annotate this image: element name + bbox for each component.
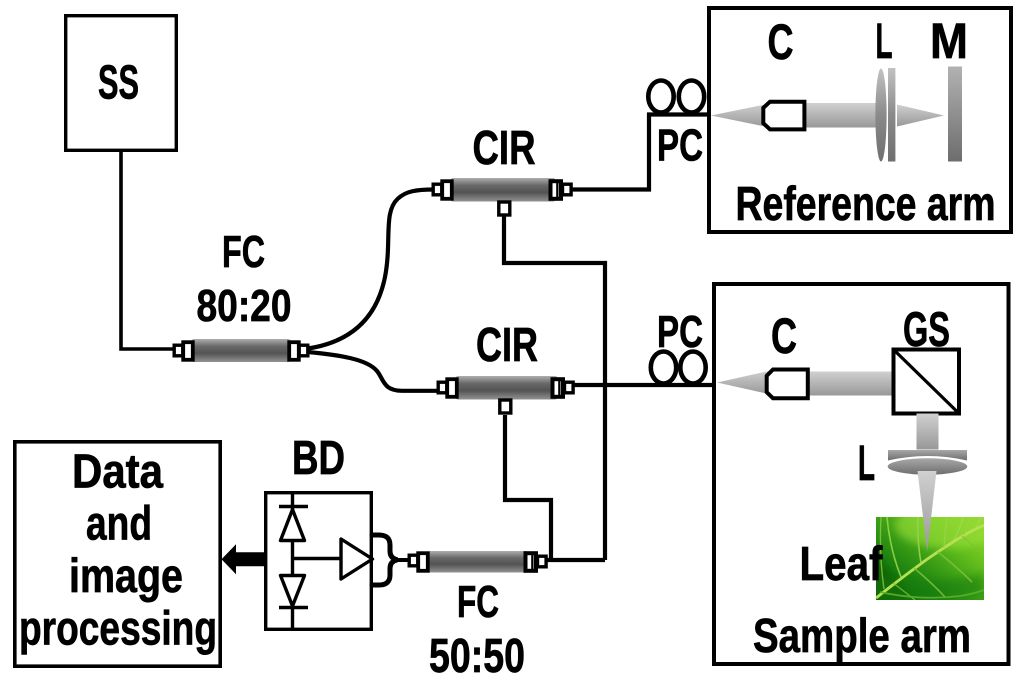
- FC 50:50 right connector stripe: [531, 555, 533, 570]
- svg-text:C: C: [771, 308, 797, 364]
- svg-text:50:50: 50:50: [429, 630, 525, 682]
- svg-text:FC: FC: [457, 576, 499, 627]
- CIR2 bottom port: [500, 400, 511, 413]
- photodiode D2 cathode bar: [279, 606, 308, 609]
- FC 80:20 right connector square: [289, 342, 299, 360]
- sample arm beam: diverging triangle from fiber tip: [717, 371, 771, 395]
- reference arm collimator C: [763, 102, 804, 130]
- FC 50:50 left connector nub: [409, 555, 418, 566]
- svg-text:Sample arm: Sample arm: [753, 610, 971, 663]
- svg-text:PC: PC: [657, 306, 703, 357]
- box BD (balanced detector): [266, 493, 372, 630]
- sample arm objective lens ellipse: [888, 458, 968, 474]
- svg-text:CIR: CIR: [476, 319, 538, 372]
- reference arm beam: collimated band C to L: [800, 103, 878, 128]
- wire CIR1 right port to PC1: [570, 115, 709, 190]
- wire CIR1 bottom port down to FC 50:50 junction: [504, 214, 605, 560]
- svg-text:FC: FC: [222, 226, 265, 277]
- svg-text:C: C: [768, 14, 794, 70]
- svg-text:image: image: [69, 550, 183, 603]
- BD internal vertical rail: [291, 492, 294, 629]
- BD output bracket: [372, 535, 398, 585]
- box Data and image processing: [15, 442, 220, 666]
- wire FC 80:20 to CIR2 (lower curve): [308, 352, 440, 391]
- fiber coupler FC 50:50 body: [427, 551, 529, 573]
- wire FC 50:50 right to junction: [547, 558, 605, 562]
- photodiode D1 cathode bar: [279, 505, 308, 508]
- wire bracket to FC 50:50: [396, 558, 410, 562]
- FC 50:50 right connector square: [526, 553, 537, 571]
- CIR2 right connector nub: [565, 382, 574, 393]
- photodiode D2 triangle: [281, 576, 305, 607]
- svg-text:GS: GS: [903, 303, 950, 357]
- FC 80:20 left connector square: [183, 342, 193, 360]
- svg-text:SS: SS: [98, 57, 139, 110]
- wire CIR2 right port to sample arm: [572, 383, 713, 387]
- sample arm beam: vertical band below GS: [917, 414, 939, 450]
- svg-text:80:20: 80:20: [197, 280, 292, 331]
- svg-text:processing: processing: [19, 603, 217, 656]
- CIR1 right connector stripe: [556, 183, 558, 198]
- balanced detector output arrow to data box: [222, 544, 265, 574]
- wire FC 80:20 to CIR1 (upper S-curve): [308, 190, 434, 349]
- sample arm objective lens top bar: [888, 450, 967, 461]
- box Reference arm: [709, 8, 1011, 232]
- reference arm lens back bar: [888, 68, 895, 162]
- svg-text:Data: Data: [72, 446, 163, 499]
- CIR1 left connector nub: [433, 184, 442, 195]
- svg-text:BD: BD: [292, 432, 345, 485]
- wire CIR2 bottom port to FC 50:50: [505, 415, 551, 560]
- sample arm beam: focused cone onto leaf: [918, 471, 937, 552]
- CIR1 right connector nub: [563, 184, 572, 195]
- sample arm beam: collimated band C to GS: [803, 372, 893, 396]
- photodiode D1 triangle: [281, 510, 305, 541]
- CIR2 left connector nub: [438, 382, 447, 393]
- CIR2 right connector stripe: [558, 381, 560, 396]
- fiber coupler FC 80:20 body: [191, 339, 291, 362]
- polarization controller PC2 loop 2: [680, 352, 705, 384]
- CIR2 right connector square: [553, 379, 564, 397]
- svg-text:CIR: CIR: [473, 122, 536, 175]
- polarization controller PC1 loop 1: [648, 81, 673, 113]
- box Sample arm: [714, 284, 1009, 664]
- svg-text:Reference arm: Reference arm: [736, 178, 996, 231]
- reference arm lens L ellipse: [875, 69, 886, 162]
- polarization controller PC2 loop 1: [651, 352, 676, 384]
- CIR1 right connector square: [551, 181, 562, 199]
- reference arm beam: diverging triangle from fiber tip: [711, 104, 770, 128]
- FC 50:50 right connector nub: [538, 556, 547, 567]
- CIR2 left connector square: [447, 379, 457, 397]
- GS mirror diagonal: [895, 351, 959, 413]
- reference arm beam: converging triangle to mirror: [897, 105, 944, 127]
- leaf sample image: [876, 504, 1005, 601]
- svg-text:Leaf: Leaf: [800, 538, 884, 591]
- CIR1 left connector square: [442, 181, 452, 199]
- amplifier triangle: [341, 539, 373, 579]
- box SS (swept source): [66, 16, 177, 151]
- circulator CIR1 body: [450, 178, 556, 202]
- svg-text:and: and: [86, 498, 152, 551]
- reference arm mirror M: [948, 67, 962, 162]
- svg-text:L: L: [858, 435, 875, 491]
- FC 50:50 left connector square: [418, 553, 428, 571]
- BD internal wire to amplifier: [293, 557, 342, 560]
- polarization controller PC1 loop 2: [679, 81, 704, 113]
- svg-text:M: M: [930, 13, 968, 69]
- circulator CIR2 body: [455, 376, 558, 400]
- sample arm collimator C: [767, 370, 808, 399]
- galvo scanner GS box: [894, 350, 960, 414]
- FC 80:20 right connector nub: [299, 345, 308, 356]
- CIR1 bottom port: [499, 202, 510, 215]
- svg-text:PC: PC: [657, 120, 703, 171]
- wire from SS to FC 80:20: [121, 151, 173, 349]
- svg-text:L: L: [876, 13, 893, 69]
- FC 80:20 left connector nub: [174, 345, 183, 356]
